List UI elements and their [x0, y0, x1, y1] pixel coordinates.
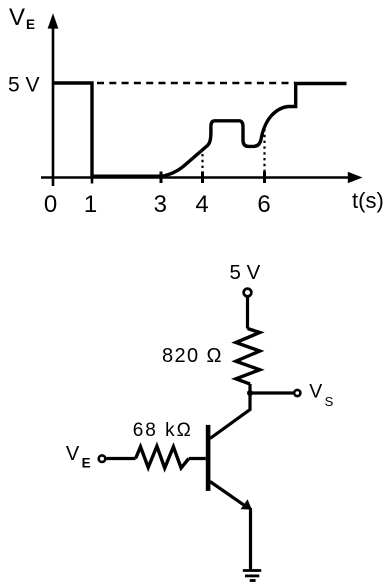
- svg-text:820 Ω: 820 Ω: [162, 345, 223, 367]
- dashed 5V reference line: [97, 82, 295, 85]
- waveform VE(t): [53, 83, 347, 177]
- svg-text:68 kΩ: 68 kΩ: [133, 420, 193, 441]
- svg-text:V: V: [66, 443, 80, 465]
- terminal VS: [294, 390, 300, 396]
- svg-text:5 V: 5 V: [8, 73, 40, 96]
- wire 5V to resistor: [246, 297, 249, 329]
- terminal 5V: [244, 289, 252, 297]
- wire emitter to ground: [249, 508, 252, 570]
- svg-text:E: E: [82, 456, 91, 471]
- wire node to VS terminal: [250, 391, 293, 394]
- svg-text:0: 0: [44, 191, 57, 218]
- y-axis: [48, 13, 59, 186]
- x-axis: [41, 172, 363, 183]
- svg-text:1: 1: [84, 191, 97, 218]
- wire VE to resistor: [107, 457, 136, 460]
- svg-text:E: E: [26, 17, 35, 32]
- svg-text:4: 4: [195, 191, 208, 218]
- collector wire: [210, 393, 250, 439]
- tick t=1: [91, 178, 94, 184]
- transistor Q1 emitter with arrow: [210, 482, 252, 510]
- svg-text:t(s): t(s): [352, 188, 384, 213]
- ground: [243, 571, 261, 581]
- tick t=4: [201, 172, 204, 184]
- junction node VS: [247, 390, 253, 396]
- transistor Q1 base bar: [206, 425, 211, 491]
- resistor R1 820 ohm: [236, 329, 260, 385]
- wire resistor to node: [248, 384, 251, 393]
- wire resistor to base: [189, 457, 206, 460]
- svg-text:V: V: [309, 381, 322, 403]
- dotted vertical line at t=4: [201, 154, 203, 175]
- svg-text:5 V: 5 V: [230, 261, 261, 284]
- svg-text:S: S: [325, 394, 334, 409]
- tick t=6: [263, 172, 266, 184]
- resistor R2 68k ohm: [136, 446, 189, 468]
- tick t=3: [160, 172, 163, 184]
- dotted vertical line at t=6: [263, 129, 265, 175]
- svg-text:6: 6: [257, 191, 270, 218]
- terminal VE: [99, 455, 106, 462]
- svg-text:V: V: [9, 4, 25, 31]
- svg-text:3: 3: [154, 191, 167, 218]
